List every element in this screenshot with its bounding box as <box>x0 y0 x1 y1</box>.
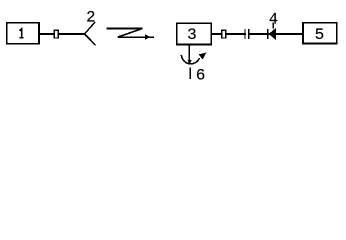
svg-text:2: 2 <box>86 9 95 27</box>
box 1 <box>7 23 39 44</box>
component (small rect) on wire near box 3 <box>222 30 226 38</box>
label 6 <box>196 66 206 84</box>
label 6 lead line <box>189 67 191 78</box>
antenna 2 <box>85 22 96 45</box>
label 2 <box>86 9 95 27</box>
wire from box 3 to box 5 <box>212 33 303 35</box>
label 4 <box>269 10 278 28</box>
electromagnetic wave arrow (zigzag) <box>107 29 155 40</box>
downward arrow under box 3 <box>187 45 191 65</box>
component (small rect) on wire near box 1 <box>54 30 58 38</box>
diode 4 <box>268 28 276 40</box>
wire from box 1 to antenna 2 <box>39 33 85 35</box>
label 4 lead line <box>272 23 274 29</box>
box 5 <box>303 23 337 44</box>
box 3 <box>177 23 211 44</box>
svg-text:5: 5 <box>315 26 325 44</box>
capacitor <box>245 29 249 40</box>
svg-text:6: 6 <box>196 66 206 84</box>
svg-text:3: 3 <box>187 26 197 44</box>
rotation arc arrow <box>181 53 206 64</box>
svg-text:4: 4 <box>269 10 278 28</box>
